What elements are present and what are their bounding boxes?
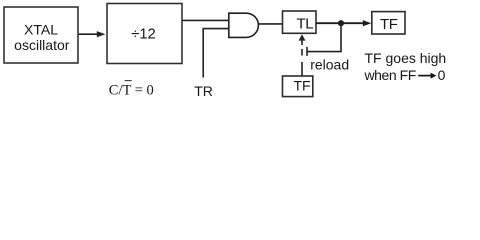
svg-text:TL: TL [296,16,313,33]
wire: bottom TF up to TL, lower solid segment [301,62,303,76]
svg-text:TF: TF [380,16,398,33]
wire: divider to AND gate (top input) [182,19,230,21]
svg-text:XTAL: XTAL [24,22,58,38]
dash segment 1 [301,49,303,56]
arrowhead into TF [363,20,372,26]
arrow glyph in annotation [418,75,431,77]
svg-text:0: 0 [438,67,446,83]
svg-text:TF goes high: TF goes high [365,50,447,66]
wire: TL to TF [316,22,365,24]
svg-text:TR: TR [194,83,213,99]
divider block ÷12 [107,4,182,64]
svg-text:÷12: ÷12 [131,26,156,42]
XTAL oscillator block [4,7,78,63]
overbar on T [125,80,132,82]
svg-text:when FF: when FF [364,67,416,83]
wire: TR input, vertical then into gate (bottom input) [203,29,229,78]
dash segment 2 [301,40,303,45]
TL register block [283,11,317,33]
arrowhead up into TL [299,34,306,40]
svg-text:C/T = 0: C/T = 0 [109,82,154,98]
arrowhead into divider [97,31,106,37]
wire: XTAL to divider [79,33,98,35]
svg-text:reload: reload [310,56,349,72]
junction node [338,20,344,26]
tick at left end of reload wire [306,47,308,56]
wire: AND gate output to TL [259,23,283,25]
svg-text:oscillator: oscillator [14,37,70,53]
svg-text:TF: TF [293,78,310,94]
TF reload-source block (bottom) [283,76,313,97]
AND gate [229,13,259,37]
TF flag block (top) [372,12,405,34]
reload wire: junction down then left [307,25,341,52]
